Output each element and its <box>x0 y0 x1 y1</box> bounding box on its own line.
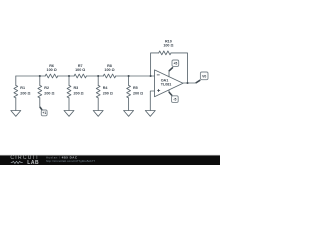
svg-text:+1: +1 <box>42 111 46 115</box>
wire bus top rail <box>16 75 45 77</box>
svg-text:-5: -5 <box>173 97 176 101</box>
svg-text:100 Ω: 100 Ω <box>163 43 173 47</box>
svg-text:R1: R1 <box>20 86 25 90</box>
wire feedback top and right drop <box>171 53 188 83</box>
op-amp inverting input marker <box>157 74 160 76</box>
svg-text:100 Ω: 100 Ω <box>104 68 114 72</box>
voltage flag -5 at op-amp V- <box>169 92 178 102</box>
wire op-amp non-inverting input to ground <box>150 91 154 111</box>
node output junction junction dot <box>186 82 188 84</box>
resistor R5 <box>128 76 130 85</box>
svg-text:200 Ω: 200 Ω <box>20 91 30 95</box>
wire bus between R6 and R7 <box>58 75 74 77</box>
node bus-feedback junction dot <box>150 75 152 77</box>
node bus-R2 junction dot <box>39 75 41 77</box>
svg-text:100 Ω: 100 Ω <box>75 68 85 72</box>
svg-text:Auslan / 4B5 DAC: Auslan / 4B5 DAC <box>46 155 78 159</box>
ground at op-amp non-inverting input <box>145 111 155 117</box>
node bus-R3 junction dot <box>68 75 70 77</box>
svg-text:TL081: TL081 <box>161 83 172 87</box>
resistor R3 <box>68 76 70 85</box>
resistor R2 <box>39 76 41 85</box>
resistor R8 <box>103 74 115 78</box>
footer bar <box>0 156 220 166</box>
op-amp non-inverting input marker <box>157 89 160 92</box>
svg-text:http://circuitlab.com/c477g4bu: http://circuitlab.com/c477g4bu5ob77 <box>46 159 96 163</box>
ground below R4 <box>93 111 103 117</box>
svg-text:V0: V0 <box>202 74 206 78</box>
resistor R10 <box>159 51 171 55</box>
op-amp OA1 triangle <box>155 70 184 97</box>
ground below R1 <box>11 111 21 117</box>
svg-text:R2: R2 <box>44 86 49 90</box>
wire bus between R7 and R8 <box>86 75 103 77</box>
svg-text:LAB: LAB <box>27 160 39 165</box>
node bus-R5 junction dot <box>128 75 130 77</box>
ground below R5 <box>124 111 134 117</box>
svg-text:200 Ω: 200 Ω <box>74 91 84 95</box>
svg-text:200 Ω: 200 Ω <box>44 91 54 95</box>
svg-text:R3: R3 <box>74 86 79 90</box>
voltage flag +1 at R2 <box>40 107 47 116</box>
wire op-amp V+ power pin <box>168 71 170 77</box>
resistor R6 <box>45 74 58 78</box>
voltage flag +5 at op-amp V+ <box>169 60 179 71</box>
CircuitLab logo <box>10 155 39 166</box>
wire feedback left riser <box>151 53 159 76</box>
wire bus to op-amp inverting input <box>116 75 155 77</box>
wire op-amp output <box>183 82 196 84</box>
svg-text:200 Ω: 200 Ω <box>103 91 113 95</box>
svg-text:200 Ω: 200 Ω <box>133 91 143 95</box>
node bus-R4 junction dot <box>97 75 99 77</box>
output flag V0 <box>196 72 208 83</box>
svg-text:+5: +5 <box>173 62 177 66</box>
resistor R1 <box>15 76 17 85</box>
resistor R4 <box>97 76 99 85</box>
ground below R3 <box>64 111 74 117</box>
svg-text:100 Ω: 100 Ω <box>47 68 57 72</box>
svg-text:R5: R5 <box>133 86 138 90</box>
wire op-amp V- power pin <box>168 90 170 93</box>
resistor R7 <box>74 74 86 78</box>
